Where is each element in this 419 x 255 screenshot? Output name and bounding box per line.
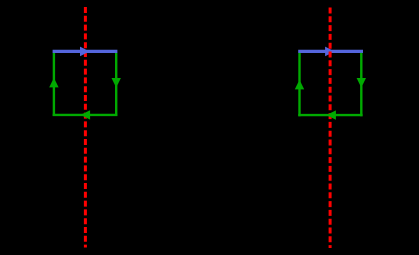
right loop: green current arrow (downward) xyxy=(357,78,366,88)
right loop: green current arrow (upward) xyxy=(295,80,304,90)
left figure: mirror axis (red dashed line) xyxy=(84,7,87,248)
right figure: mirror axis (red dashed line, drawn over blue) xyxy=(329,8,332,249)
left loop: green current arrow (upward) xyxy=(49,78,58,88)
right loop: bottom edge (green wire) xyxy=(298,114,363,116)
left loop: right edge (green wire) xyxy=(115,53,117,116)
right loop: left edge (green wire) xyxy=(298,53,300,116)
left loop: bottom edge (green wire) xyxy=(53,114,118,116)
right loop: green current arrow (leftward) xyxy=(326,110,336,119)
left loop: green current arrow (downward) xyxy=(112,78,121,88)
left loop: blue current arrow (rightward) xyxy=(80,47,90,57)
left loop: top edge (blue wire) xyxy=(53,50,118,53)
right loop: blue current arrow (rightward) xyxy=(325,47,335,57)
left loop: green current arrow (leftward) xyxy=(81,110,91,119)
right loop: right edge (green wire) xyxy=(360,53,362,116)
right loop: top edge (blue wire) xyxy=(298,50,363,53)
left loop: left edge (green wire) xyxy=(53,53,55,116)
